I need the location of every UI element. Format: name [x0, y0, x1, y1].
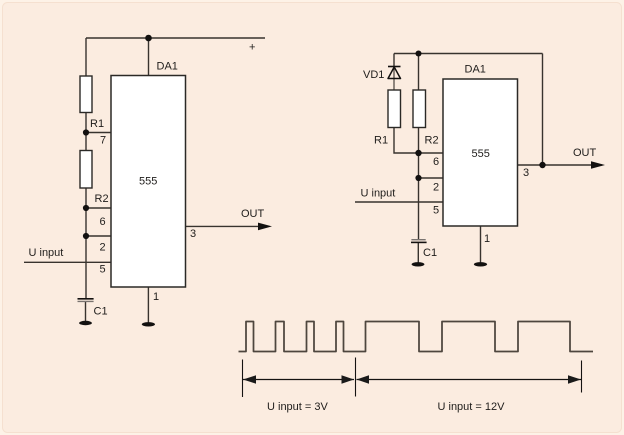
svg-text:2: 2: [433, 182, 439, 194]
svg-text:U input: U input: [361, 188, 396, 200]
svg-text:R2: R2: [95, 193, 109, 205]
svg-text:VD1: VD1: [363, 69, 384, 81]
svg-text:C1: C1: [94, 306, 108, 318]
svg-text:7: 7: [100, 135, 106, 147]
svg-text:2: 2: [100, 242, 106, 254]
svg-text:C1: C1: [423, 247, 437, 259]
svg-text:R2: R2: [425, 135, 439, 147]
svg-text:5: 5: [100, 264, 106, 276]
svg-text:5: 5: [433, 205, 439, 217]
svg-text:1: 1: [484, 233, 490, 245]
svg-text:OUT: OUT: [573, 147, 597, 159]
svg-text:R1: R1: [374, 135, 388, 147]
svg-text:+: +: [249, 42, 255, 54]
svg-text:3: 3: [523, 167, 529, 179]
svg-text:U input = 12V: U input = 12V: [438, 401, 506, 413]
svg-text:3: 3: [190, 228, 196, 240]
svg-text:6: 6: [100, 216, 106, 228]
svg-text:U input: U input: [29, 247, 64, 259]
svg-text:555: 555: [139, 176, 157, 188]
svg-text:1: 1: [153, 291, 159, 303]
svg-text:U input = 3V: U input = 3V: [267, 401, 329, 413]
svg-text:R1: R1: [90, 118, 104, 130]
svg-text:6: 6: [433, 156, 439, 168]
svg-text:555: 555: [472, 148, 490, 160]
svg-text:DA1: DA1: [157, 61, 178, 73]
svg-text:DA1: DA1: [465, 64, 486, 76]
svg-text:OUT: OUT: [241, 208, 265, 220]
